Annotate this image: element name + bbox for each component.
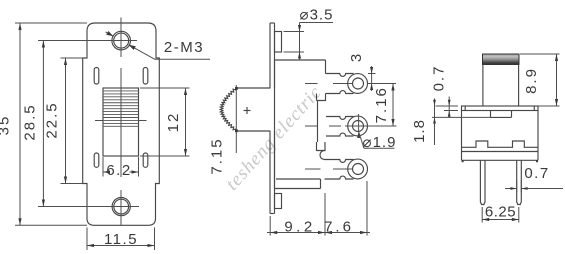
svg-text:22.5: 22.5 [44, 101, 61, 138]
svg-text:⌀3.5: ⌀3.5 [300, 7, 334, 24]
svg-text:2-M3: 2-M3 [164, 39, 204, 56]
svg-text:1.8: 1.8 [411, 119, 428, 143]
svg-text:35: 35 [0, 115, 13, 136]
svg-text:7.15: 7.15 [208, 137, 225, 174]
svg-text:3: 3 [348, 54, 365, 62]
svg-text:28.5: 28.5 [22, 103, 39, 140]
svg-text:12: 12 [165, 112, 182, 133]
svg-text:⌀1.9: ⌀1.9 [363, 134, 397, 151]
svg-text:7.16: 7.16 [373, 86, 390, 123]
svg-text:11.5: 11.5 [104, 231, 138, 248]
svg-text:7.6: 7.6 [324, 219, 354, 236]
svg-text:6.2: 6.2 [106, 162, 131, 179]
svg-text:0.7: 0.7 [524, 165, 549, 182]
svg-text:9.2: 9.2 [284, 219, 315, 236]
svg-text:8.9: 8.9 [523, 67, 540, 94]
svg-text:0.7: 0.7 [431, 65, 448, 92]
svg-text:6.25: 6.25 [485, 204, 516, 221]
